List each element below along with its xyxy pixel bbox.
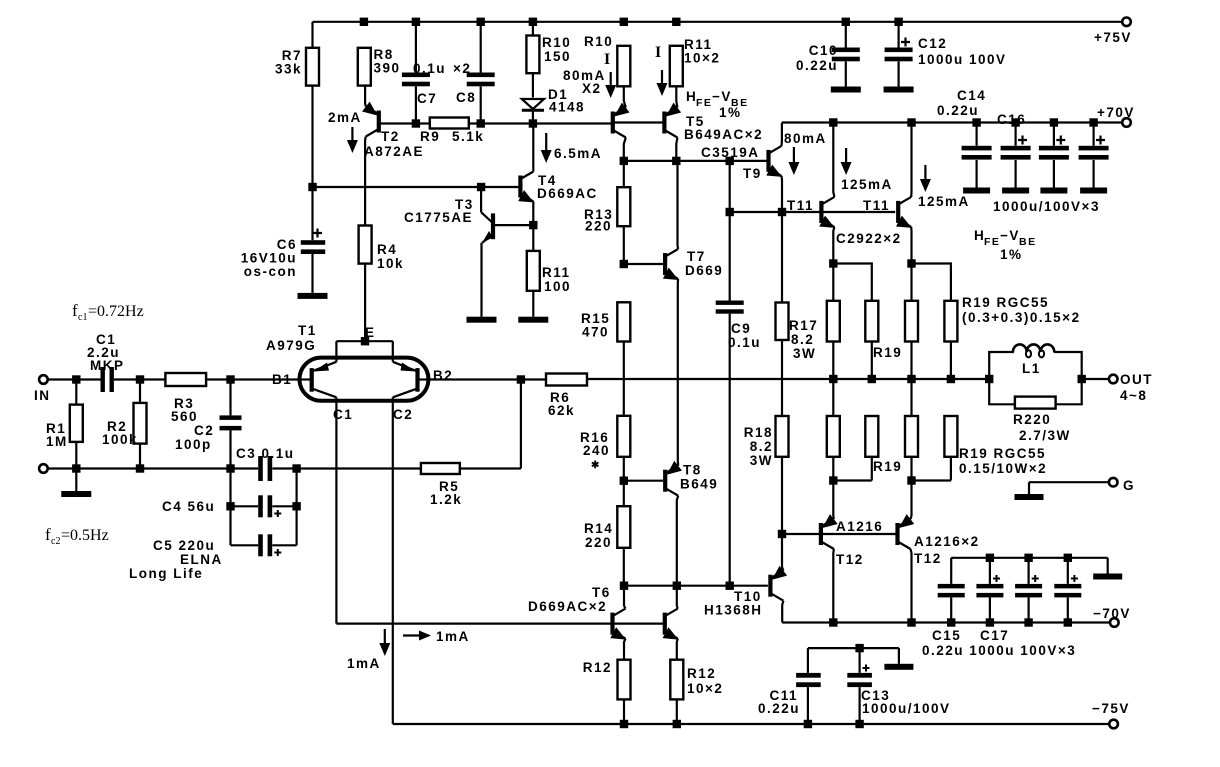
node C15 bottom [947,618,955,626]
svg-text:L1: L1 [1022,361,1041,376]
node L1 right [1078,375,1086,383]
capacitor C10 [845,22,847,48]
svg-text:10×2: 10×2 [684,51,720,66]
svg-text:C8: C8 [456,90,476,105]
node R2 bottom [136,464,144,472]
svg-text:c2: c2 [51,536,60,547]
node T5b collector [672,157,680,165]
svg-text:125mA: 125mA [841,177,893,192]
capacitor C9 [729,161,731,301]
svg-text:C15: C15 [932,628,961,643]
capacitor C15 [950,558,952,584]
svg-text:T6: T6 [592,585,611,600]
svg-text:10×2: 10×2 [687,681,723,696]
node C14 top [972,118,980,126]
node C3 right [292,464,300,472]
svg-text:C14: C14 [957,88,986,103]
svg-text:R12: R12 [687,666,716,681]
terminal OUT [1109,375,1118,384]
svg-text:X2: X2 [582,81,602,96]
svg-text:B2: B2 [433,368,453,383]
terminal -70V [1110,618,1119,627]
transistor T6b D669AC [614,622,664,624]
svg-text:R17: R17 [789,318,818,333]
svg-text:1mA: 1mA [347,656,381,671]
node R7-C6 [308,183,316,191]
wire C4 branch [229,469,231,507]
wire +75V top rail [313,21,1127,23]
wire T11a emitter jumper [833,264,872,301]
svg-text:0.22u: 0.22u [758,701,800,716]
resistor R6 62k [546,374,587,386]
node C16a top [1011,118,1019,126]
inductor L1 coil [1013,344,1054,352]
node C9 top [726,157,734,165]
resistor R8 [358,48,371,86]
svg-text:C3 0.1u: C3 0.1u [236,446,295,461]
node C9 bottom [726,582,734,590]
resistor R11 100 [532,225,534,251]
T1 right half [419,378,428,380]
node L1 left [985,375,993,383]
node R19c out [907,375,915,383]
svg-text:R10: R10 [584,34,613,49]
node T8 emitter [673,582,681,590]
wire signal input rail [43,378,100,380]
node T5a collector [620,157,628,165]
label 125mA arrow right [924,165,926,181]
resistor R19c upper [910,264,912,301]
svg-text:ELNA: ELNA [180,552,223,567]
terminal +75V [1122,18,1131,27]
svg-text:B649AC×2: B649AC×2 [684,127,763,142]
terminal -75V [1109,720,1118,729]
svg-text:C12: C12 [918,36,947,51]
capacitor C17b [1027,558,1029,584]
svg-text:100k: 100k [102,432,138,447]
resistor R10 second [617,46,630,87]
transistor T11a C2922 [819,201,823,223]
resistor R12 second 10x2 [670,660,683,700]
capacitor C11 0.22u [808,647,899,649]
svg-text:T7: T7 [687,249,706,264]
wire C15 bank top bus [951,557,1107,559]
wire T1 C2 column [392,404,394,724]
resistor R19b upper [865,301,878,342]
wire T12 base row [782,533,897,535]
resistor R13 [623,161,625,187]
svg-text:3W: 3W [793,346,816,361]
svg-text:2.7/3W: 2.7/3W [1019,428,1071,443]
resistor R4 [359,226,372,264]
wire input ground rail [43,467,258,469]
svg-text:R19 RGC55: R19 RGC55 [959,446,1046,461]
transistor T10 H1368H [768,575,772,597]
wire T1 C1 column [335,404,337,624]
svg-text:+75V: +75V [1094,30,1132,45]
node C13 bottom [855,720,863,728]
svg-text:A1216×2: A1216×2 [914,534,980,549]
svg-text:C16: C16 [997,112,1026,127]
svg-text:0.22u 1000u 100V×3: 0.22u 1000u 100V×3 [922,643,1076,658]
wire T8 base [624,480,663,482]
svg-text:T11: T11 [787,198,814,213]
resistor R19a upper [832,264,834,301]
svg-text:OUT: OUT [1120,372,1153,387]
svg-text:8.2: 8.2 [791,332,814,347]
resistor R11 10x2 [670,46,683,87]
resistor R15 470 [617,302,630,341]
svg-text:R11: R11 [542,265,571,280]
ground C11 C13 [898,648,900,664]
node R12b bottom [673,720,681,728]
capacitor C16c [1092,123,1094,146]
node C7 top [412,18,420,26]
capacitor C5 220u [258,534,263,556]
node C2 bottom [226,464,234,472]
svg-text:(0.3+0.3)0.15×2: (0.3+0.3)0.15×2 [962,310,1081,325]
svg-text:G: G [1123,478,1135,493]
resistor R220 2.7/3W [1015,397,1056,409]
svg-text:−70V: −70V [1093,606,1131,621]
svg-text:C2: C2 [393,407,413,422]
capacitor C4 56u [258,495,263,517]
transistor T5a B649AC [611,112,615,134]
svg-text:R12: R12 [583,660,612,675]
label 6.5mA arrow [545,133,547,152]
svg-text:os-con: os-con [244,264,297,279]
T1 emitter bar [336,340,392,342]
capacitor C12 [897,22,899,48]
svg-text:✱: ✱ [591,460,601,471]
svg-text:1.2k: 1.2k [430,492,462,507]
svg-text:E: E [365,325,376,340]
svg-text:T11: T11 [863,198,890,213]
svg-text:C7: C7 [417,91,437,106]
node R18 bottom T12 base [778,530,786,538]
svg-text:0.1u: 0.1u [413,61,446,76]
node B2 R5 [517,375,525,383]
svg-text:I: I [655,44,663,61]
resistor R17 8.2 3W [776,303,789,341]
svg-text:B1: B1 [272,372,292,387]
ground C15 bank [1107,558,1109,574]
svg-text:D669AC×2: D669AC×2 [528,599,607,614]
svg-text:100: 100 [544,279,571,294]
capacitor C3 0.1u [258,456,263,481]
svg-text:0.1u: 0.1u [728,335,761,350]
svg-text:FE: FE [696,97,712,109]
node C17a bottom [986,618,994,626]
svg-text:R4: R4 [377,242,397,257]
node C7 bottom [412,119,420,127]
node R13-R15 [620,260,628,268]
label 1mA right arrow [403,634,421,636]
node R19b out [868,375,876,383]
resistor R14 220 [617,506,630,548]
svg-text:4148: 4148 [549,100,585,115]
svg-text:390: 390 [374,61,401,76]
svg-text:D669AC: D669AC [537,186,598,201]
svg-text:I: I [604,51,612,68]
svg-text:A1216: A1216 [836,519,883,534]
resistor R9 5.1k [430,118,469,129]
capacitor C16b [1053,123,1055,146]
resistor R2 100k [139,380,141,403]
transistor T3 C1775AE [480,187,482,212]
resistor R18 8.2 3W [776,416,789,457]
node T12a collector [829,618,837,626]
resistor R19d upper [944,301,957,342]
svg-text:+70V: +70V [1097,105,1135,120]
svg-text:150: 150 [544,49,571,64]
svg-text:C2: C2 [194,423,214,438]
wire T12a emitter jumper [833,481,872,517]
wire T12b emitter jumper [912,481,951,517]
wire T11b emitter jumper [912,264,951,301]
svg-text:R19 RGC55: R19 RGC55 [962,295,1049,310]
node R19d out [947,375,955,383]
transistor T5b B649AC [614,121,663,123]
wire -75V rail [393,723,1114,725]
svg-text:T2: T2 [381,129,400,144]
svg-text:R220: R220 [1013,412,1051,427]
transistor T4 D669AC [518,176,522,198]
node R14 bottom [620,582,628,590]
svg-text:D669: D669 [685,263,723,278]
svg-text:0.22u: 0.22u [937,103,979,118]
capacitor C6 [311,187,313,240]
svg-text:Long Life: Long Life [129,566,203,581]
wire G ground [1029,481,1113,483]
resistor R5 1.2k [421,463,460,474]
node C16b top [1050,118,1058,126]
svg-text:5.1k: 5.1k [452,129,484,144]
svg-text:=0.72Hz: =0.72Hz [88,303,144,320]
svg-text:T9: T9 [743,166,762,181]
svg-text:10k: 10k [377,256,404,271]
wire bias row y187 [313,186,520,188]
transistor T9 C3519A [766,150,770,172]
transistor T11b C2922 [896,201,900,223]
resistor R3 560 [165,373,206,386]
resistor R19d lower [944,416,957,457]
node R1 top [72,375,80,383]
svg-text:C5 220u: C5 220u [153,538,215,553]
wire T2 base row [380,122,430,124]
svg-text:2mA: 2mA [328,110,362,125]
svg-text:×2: ×2 [453,61,471,76]
svg-text:0.15/10W×2: 0.15/10W×2 [959,461,1047,476]
svg-text:1%: 1% [719,105,742,120]
node R11 top [672,18,680,26]
svg-text:R9: R9 [420,129,440,144]
svg-text:B649: B649 [680,477,718,492]
capacitor C8 [480,22,482,73]
svg-text:MKP: MKP [90,358,125,373]
capacitor C1 2.2u MKP [101,367,105,392]
resistor R19c lower [910,379,912,416]
capacitor C14 [975,123,977,146]
svg-text:62k: 62k [548,403,575,418]
transistor T8 B649 [663,470,667,492]
node T12b collector [907,618,915,626]
node R19a out [829,375,837,383]
svg-text:IN: IN [34,388,51,403]
transistor T6a D669AC [623,586,625,606]
terminal +70V [1122,118,1131,127]
svg-text:220: 220 [585,219,612,234]
capacitor C16a [1014,123,1016,146]
svg-text:A979G: A979G [266,338,316,353]
capacitor C17a [989,558,991,584]
node C10 top [842,18,850,26]
svg-text:C17: C17 [980,628,1009,643]
svg-text:H1368H: H1368H [704,603,763,618]
node C9 T11 base [726,208,734,216]
svg-text:−75V: −75V [1092,701,1130,716]
svg-text:A872AE: A872AE [364,144,424,159]
svg-text:c1: c1 [78,312,87,323]
svg-text:C4 56u: C4 56u [162,499,215,514]
node C17b bottom [1024,618,1032,626]
node C8 bottom [477,119,485,127]
svg-text:560: 560 [171,409,198,424]
resistor R12 [618,660,631,700]
label 125mA arrow left [845,148,847,164]
terminal IN [39,375,48,384]
capacitor C7 [415,22,417,73]
dual transistor T1 A979G [300,358,429,401]
svg-text:=0.5Hz: =0.5Hz [61,527,109,544]
wire +70V rail [782,121,1127,123]
node R10 top [529,18,537,26]
resistor R10 [532,22,534,36]
svg-text:220: 220 [585,535,612,550]
node C16c top [1089,118,1097,126]
wire rail to R5 [297,467,421,469]
node C2 top [226,375,234,383]
svg-text:C10: C10 [809,43,838,58]
resistor R7 [311,22,313,48]
svg-text:80mA: 80mA [784,131,827,146]
wire VAS row y585 [624,585,768,587]
terminal input low [39,464,48,473]
svg-text:470: 470 [582,325,609,340]
svg-text:C3519A: C3519A [701,145,760,160]
transistor T12b A1216 [895,523,899,545]
node C11 bottom [804,720,812,728]
svg-text:1000u/100V: 1000u/100V [862,701,951,716]
svg-text:240: 240 [583,443,610,458]
node R10b top [620,18,628,26]
svg-text:T1: T1 [298,323,317,338]
svg-text:0.22u: 0.22u [796,58,838,73]
node R2 top [136,375,144,383]
node R8 top [360,18,368,26]
node T11b collector top [907,118,915,126]
transistor T7 D669 [663,253,667,275]
resistor R1 1M [75,380,77,405]
wire L1 to OUT [1082,378,1114,380]
svg-text:C2922×2: C2922×2 [836,231,902,246]
diode D1 4148 [522,99,544,109]
node R1 bottom gnd [72,464,80,472]
wire output rail [587,378,989,380]
wire T11 base row [730,211,896,213]
svg-text:R19: R19 [873,345,902,360]
resistor R16 240 [617,416,630,457]
node R16-R14 T8 base [620,477,628,485]
svg-text:R19: R19 [873,459,902,474]
svg-text:T12: T12 [914,551,942,566]
T1 left half [300,378,311,380]
node T4 emitter R11 [529,221,537,229]
inductor L1 and R220 block [989,352,1014,379]
svg-text:33k: 33k [275,62,302,77]
node C17c bottom [1064,618,1072,626]
node C12 top [894,18,902,26]
node T11a collector top [829,118,837,126]
node R12a bottom [620,720,628,728]
resistor R19a lower [832,379,834,416]
svg-text:4~8: 4~8 [1120,388,1147,403]
svg-text:1000u 100V: 1000u 100V [918,52,1007,67]
node T3 base [477,183,485,191]
svg-text:T8: T8 [683,463,702,478]
capacitor C17c [1067,558,1069,584]
svg-text:1000u/100V×3: 1000u/100V×3 [993,199,1100,214]
svg-text:1M: 1M [46,434,68,449]
svg-text:C1775AE: C1775AE [404,210,473,225]
transistor T2 A872AE [377,111,381,133]
node C8 top [477,18,485,26]
wire T5 collector row y161 [624,160,767,162]
svg-text:C9: C9 [731,321,751,336]
svg-text:1%: 1% [1000,247,1023,262]
node T9 emitter [778,208,786,216]
label 1mA down arrow [384,629,386,645]
svg-text:3W: 3W [750,453,773,468]
svg-text:1mA: 1mA [436,629,470,644]
svg-text:125mA: 125mA [918,194,970,209]
wire T6 base row [336,622,611,624]
svg-text:6.5mA: 6.5mA [554,146,602,161]
svg-text:R18: R18 [744,425,773,440]
svg-text:100p: 100p [175,437,212,452]
wire T7 base [624,263,664,265]
wire -70V rail [782,621,1114,623]
wire C5 branch [229,506,231,545]
svg-text:R14: R14 [584,521,613,536]
svg-text:−V: −V [1000,228,1020,243]
capacitor C2 100p [229,380,231,416]
svg-text:−V: −V [712,89,732,104]
node D1 bottom [529,119,537,127]
svg-text:T12: T12 [836,552,864,567]
transistor T12a A1216 [819,523,823,545]
resistor R19b lower [865,416,878,457]
capacitor C13 1000u [855,644,863,652]
wire B2 to R6 [428,378,546,380]
svg-text:FE: FE [984,236,1000,248]
svg-text:8.2: 8.2 [750,439,773,454]
svg-text:R10: R10 [542,35,571,50]
